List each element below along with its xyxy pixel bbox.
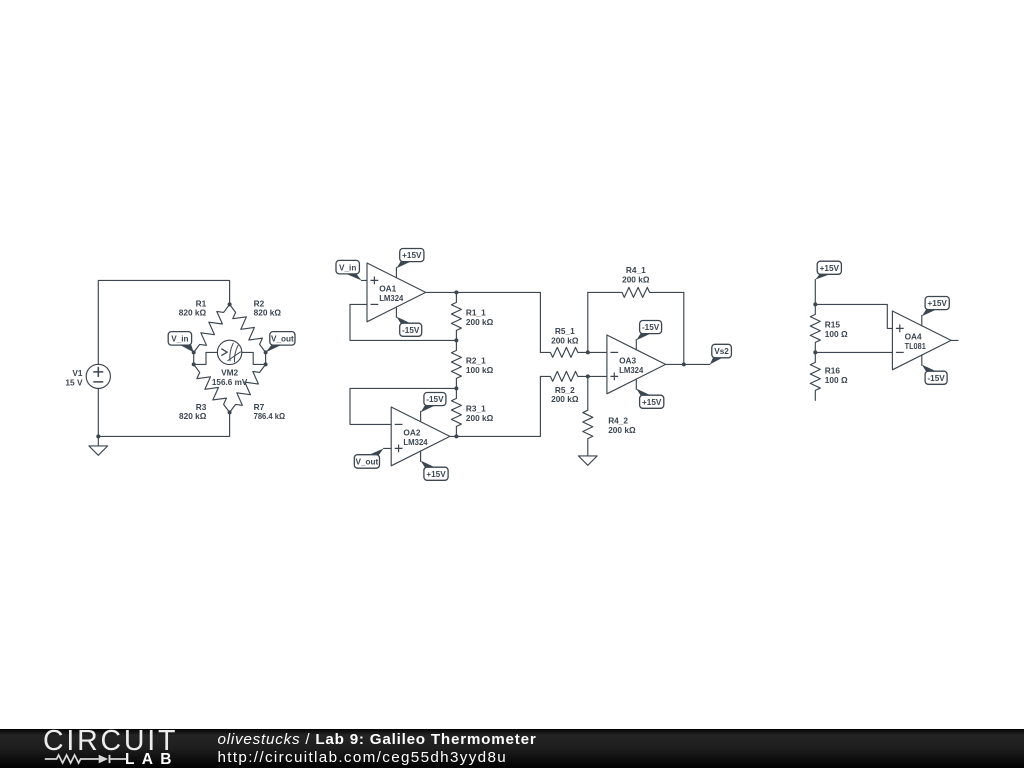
CircuitLab logo (42, 729, 182, 768)
resistor R4_1 200 k (588, 287, 684, 297)
svg-text:820 kΩ: 820 kΩ (254, 307, 282, 317)
junction R2_1/R3_1 (454, 386, 458, 390)
wire R15 top to OA4 non-inverting (815, 304, 892, 328)
svg-text:+15V: +15V (928, 299, 948, 308)
power flag +15V at OA2 (420, 451, 422, 461)
junction OA3 inverting input node (586, 350, 590, 354)
junction bridge top node (228, 302, 232, 306)
net flag V_out (bridge) (266, 345, 282, 353)
junction bridge right lower (264, 362, 268, 366)
svg-text:+15V: +15V (820, 264, 840, 273)
svg-text:156.6 mV: 156.6 mV (212, 377, 248, 387)
voltmeter VM2 156.6 mV (217, 340, 241, 364)
net flag V_in at OA1 (361, 279, 367, 281)
op-amp OA2 LM324 (391, 407, 450, 466)
resistor R2 820 k (230, 304, 266, 352)
wire OA4 output stub (951, 339, 958, 341)
power flag -15V at OA2 (420, 411, 422, 421)
wire OA3 inverting stub (588, 351, 607, 353)
power flag +15V at OA3 (635, 379, 637, 389)
net flag +15V rail (814, 280, 816, 305)
svg-text:100 Ω: 100 Ω (825, 329, 848, 339)
svg-text:+15V: +15V (402, 251, 422, 260)
resistor R3_1 200 k (451, 388, 461, 436)
junction R3_1 bottom (454, 434, 458, 438)
svg-text:V_in: V_in (171, 334, 188, 343)
resistor R2_1 100 k (451, 340, 461, 388)
wire bridge left vertical (193, 352, 195, 364)
resistor R1 820 k (194, 304, 230, 352)
op-amp OA1 LM324 (367, 263, 426, 322)
svg-text:-15V: -15V (927, 374, 945, 383)
power flag +15V at OA1 (395, 267, 397, 277)
junction OA3 output node (682, 362, 686, 366)
net flag V_in (bridge) (181, 345, 194, 353)
junction bridge left lower (192, 362, 196, 366)
svg-text:200 kΩ: 200 kΩ (608, 425, 636, 435)
net flag V_out at OA2 (384, 447, 392, 449)
wire bridge right vertical (265, 352, 267, 364)
op-amp OA4 TL081 (892, 311, 951, 370)
power flag -15V at OA1 (395, 307, 397, 317)
bottom brand bar (0, 729, 1024, 768)
wire OA1 output (426, 292, 541, 352)
svg-text:15 V: 15 V (65, 377, 83, 387)
resistor R5_2 200 k (540, 371, 587, 381)
resistor R5_1 200 k (540, 347, 587, 357)
svg-text:Vs2: Vs2 (714, 347, 729, 356)
svg-text:200 kΩ: 200 kΩ (551, 394, 579, 404)
junction bridge right upper (264, 350, 268, 354)
svg-text:LM324: LM324 (619, 365, 644, 375)
wire R4_1 left vertical (587, 292, 589, 352)
junction bridge left upper (192, 350, 196, 354)
wire OA1 inverting feedback (350, 304, 456, 340)
power flag -15V at OA3 (635, 339, 637, 349)
title line (218, 731, 537, 748)
wire OA2 inverting feedback (350, 388, 456, 424)
logo resistor-diode squiggle (45, 755, 127, 763)
junction OA3 non-inverting input node (586, 374, 590, 378)
resistor R1_1 200 k (451, 292, 461, 340)
wire V1 top to bridge top (98, 280, 229, 364)
net flag Vs2 (710, 357, 724, 364)
wire R15/R16 to OA4 inverting (815, 351, 892, 353)
resistor R16 100 ohm (810, 352, 820, 400)
resistor R15 100 ohm (810, 304, 820, 352)
voltage source V1 15 V (86, 364, 110, 388)
ground below R4_2 (578, 456, 597, 465)
svg-text:LM324: LM324 (379, 293, 404, 303)
svg-text:+15V: +15V (426, 470, 446, 479)
resistor R3 820 k (194, 364, 230, 412)
ground below V1 (89, 446, 108, 455)
power flag +15V at OA4 (921, 315, 923, 325)
svg-text:786.4 kΩ: 786.4 kΩ (254, 411, 286, 421)
resistor R4_2 200 k (583, 376, 593, 456)
wire OA2 output (450, 376, 541, 436)
junction bridge bottom node (228, 410, 232, 414)
svg-text:V_out: V_out (356, 458, 379, 467)
junction at V1 ground node (96, 434, 100, 438)
svg-text:200 kΩ: 200 kΩ (466, 413, 494, 423)
wire VM2 left lead (194, 352, 218, 364)
svg-text:200 kΩ: 200 kΩ (551, 336, 579, 346)
svg-text:100 kΩ: 100 kΩ (466, 365, 494, 375)
svg-text:-15V: -15V (642, 323, 660, 332)
junction R1_1/R2_1 (454, 338, 458, 342)
wire OA3 output (666, 363, 710, 365)
svg-text:820 kΩ: 820 kΩ (179, 307, 207, 317)
junction R15 top (813, 302, 817, 306)
wire OA3 non-inverting stub (588, 375, 607, 377)
svg-text:-15V: -15V (426, 395, 444, 404)
power flag -15V at OA4 (921, 355, 923, 365)
svg-text:200 kΩ: 200 kΩ (466, 317, 494, 327)
svg-text:100 Ω: 100 Ω (825, 375, 848, 385)
url line (218, 749, 508, 766)
svg-text:TL081: TL081 (905, 341, 927, 351)
wire VM2 right lead (242, 352, 266, 364)
wire R4_1 right vertical (683, 292, 685, 364)
junction R1_1 top (454, 290, 458, 294)
svg-text:V_in: V_in (339, 263, 356, 272)
svg-text:+15V: +15V (642, 398, 662, 407)
svg-text:820 kΩ: 820 kΩ (179, 411, 207, 421)
svg-text:LM324: LM324 (403, 437, 428, 447)
wire bridge bottom to V1 ground node (98, 412, 229, 436)
wire V1 bottom to ground (97, 389, 99, 446)
op-amp OA3 LM324 (607, 335, 666, 394)
svg-text:200 kΩ: 200 kΩ (622, 275, 650, 285)
svg-text:V_out: V_out (271, 334, 294, 343)
svg-text:-15V: -15V (402, 326, 420, 335)
resistor R7 786.4 k (230, 364, 266, 412)
junction R15/R16 (813, 350, 817, 354)
